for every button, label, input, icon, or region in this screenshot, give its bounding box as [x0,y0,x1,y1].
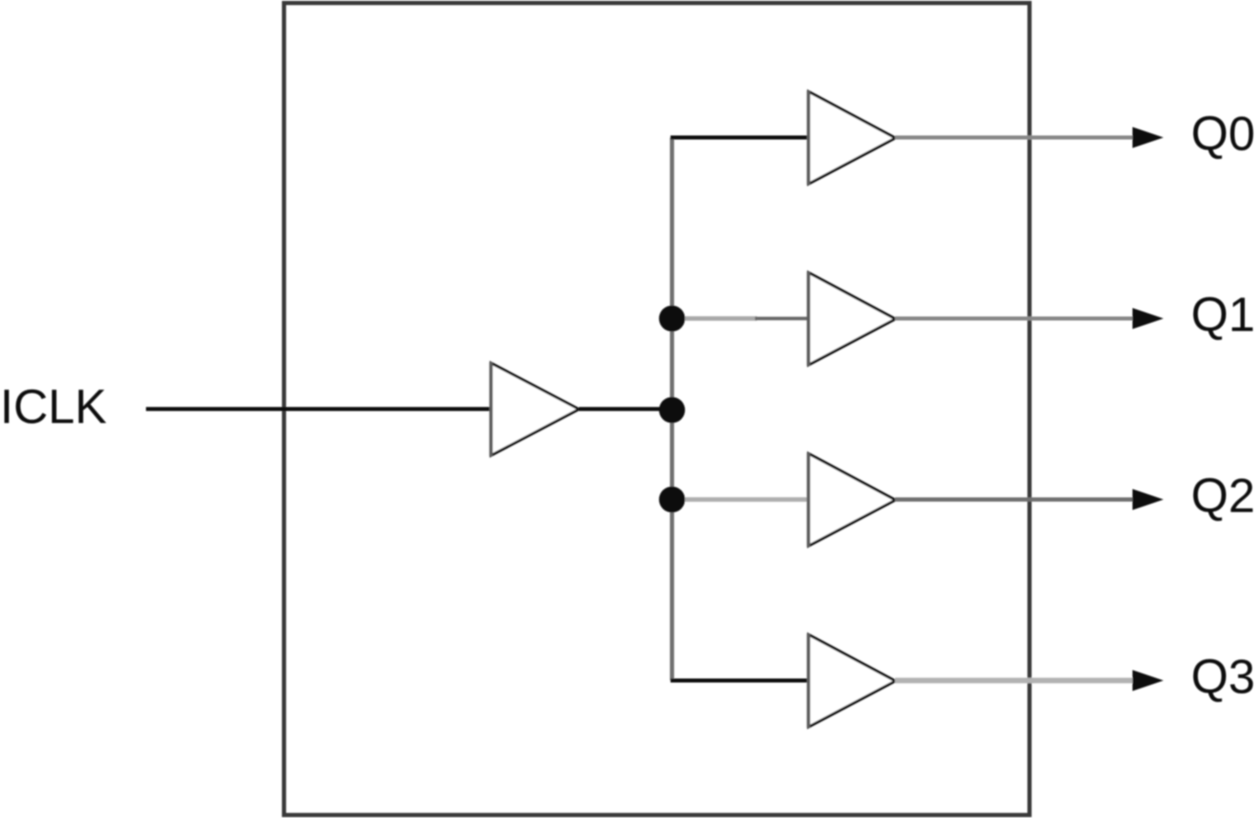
svg-text:ICLK: ICLK [0,381,107,434]
svg-text:Q3: Q3 [1191,651,1255,704]
svg-text:Q0: Q0 [1191,108,1255,161]
svg-text:Q1: Q1 [1191,289,1255,342]
svg-text:Q2: Q2 [1191,470,1255,523]
